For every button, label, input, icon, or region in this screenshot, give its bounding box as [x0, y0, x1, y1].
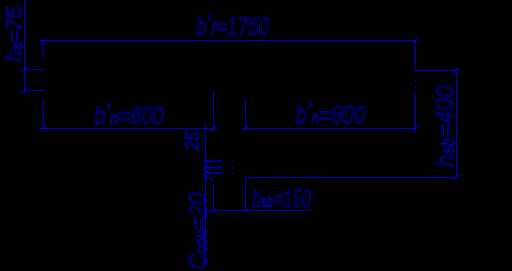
- slash tick at web top curve: [203, 175, 209, 181]
- extension line left dots: [43, 79, 44, 86]
- extension line right (x=415.6) upper segment: [415, 40, 417, 71]
- slash tick b'f left: [41, 38, 46, 43]
- slash tick b'n left at x=213.5: [211, 126, 217, 132]
- extension line right dots: [415, 81, 416, 88]
- svg-text:hs=75: hs=75: [1, 6, 26, 62]
- rebar row 2: [206, 167, 223, 169]
- dimension line b'n=800 right: [242, 128, 417, 130]
- extension line x=213.4 segment: [213, 91, 215, 131]
- slash tick b'n right at x=415.6: [413, 126, 419, 132]
- slash tick b'n left at x=43.4: [40, 126, 46, 132]
- rebar dotted continuation column: [232, 161, 233, 173]
- extension line left lower segment: [43, 99, 45, 129]
- svg-text:b’n=800: b’n=800: [296, 97, 366, 129]
- rebar row 1: [206, 161, 223, 163]
- svg-text:bsb=150: bsb=150: [252, 184, 311, 212]
- svg-text:Ccov=20: Ccov=20: [185, 193, 213, 270]
- extension line x=213.4 dot upper: [213, 77, 214, 78]
- svg-text:b’n=800: b’n=800: [94, 98, 164, 130]
- slash tick h_sb bottom: [454, 174, 460, 180]
- slash tick h_sb top: [454, 68, 460, 74]
- dimension line b'n=800 left: [40, 128, 215, 130]
- dimension line b'f=1750: [40, 40, 417, 42]
- extension line left (x=43.4) upper segment: [43, 40, 45, 59]
- svg-text:b’f=1750: b’f=1750: [196, 9, 269, 41]
- bottom reference line: [246, 177, 459, 179]
- slash tick b_sb right: [242, 207, 248, 213]
- web left rounded corner and edge: [206, 178, 214, 211]
- rebar/cover dimension line vertical x=205.6: [205, 123, 207, 267]
- dimension line b_sb=150 (web bottom): [209, 210, 311, 212]
- extension line x=245.4 dot at rebar level: [245, 163, 246, 164]
- extension line x=213.4 dot at rebar level: [213, 164, 214, 165]
- step line to h_sb dimension: [416, 70, 458, 72]
- extension line x=245.4 segment: [245, 99, 247, 130]
- svg-text:hsb=400: hsb=400: [432, 85, 460, 168]
- slash tick at flange top on h's line: [22, 67, 28, 73]
- slash tick b'f right: [413, 38, 418, 43]
- web bottom edge dots: [222, 177, 236, 178]
- slash tick at rebar row 1: [203, 158, 209, 164]
- extension line x=245.4 dot upper: [245, 87, 246, 88]
- slash tick at flange bottom on h's line: [21, 88, 27, 94]
- dimension line h's=75 vertical: [24, 0, 26, 94]
- dimension line h_sb=400 vertical: [456, 68, 458, 178]
- slash tick b'n right at x=245.4: [242, 126, 248, 132]
- slash tick at rebar row 3: [203, 170, 209, 176]
- web right edge: [245, 178, 247, 211]
- rebar row 3: [206, 172, 223, 174]
- extension line right lower segment: [415, 92, 417, 132]
- slash tick b_sb left: [211, 207, 217, 213]
- slash tick at cover bottom: [203, 230, 209, 236]
- svg-text:25: 25: [182, 131, 203, 152]
- flange bottom stub line: [24, 90, 45, 92]
- flange top stub line: [24, 69, 44, 71]
- slash tick at rebar row 2: [203, 165, 209, 171]
